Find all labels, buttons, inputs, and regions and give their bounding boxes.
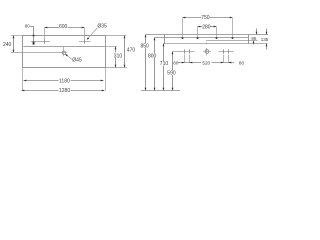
dim 135 bottom arrow xyxy=(266,44,268,50)
svg-text:600: 600 xyxy=(59,24,68,30)
leader O35 xyxy=(87,28,97,39)
extension line top edge left xyxy=(11,35,23,37)
svg-text:80: 80 xyxy=(25,24,30,29)
svg-text:80: 80 xyxy=(239,61,245,66)
leader O45 xyxy=(65,54,71,59)
tap hole 1 tick xyxy=(44,39,46,43)
svg-text:80: 80 xyxy=(173,61,179,66)
rear view left edge xyxy=(164,35,166,44)
drain tick at 135 line xyxy=(206,43,208,45)
svg-text:710: 710 xyxy=(160,61,169,67)
extension line bottom edge right xyxy=(106,67,128,69)
tap hole 2 centerline xyxy=(79,41,91,43)
tap hole 1 centerline xyxy=(31,41,50,43)
drain vertical centerline xyxy=(63,47,65,50)
basin outer rect (top view) xyxy=(23,36,106,68)
rear view slab bottom line xyxy=(155,37,249,39)
bracket holes left centerline xyxy=(180,51,195,53)
dim 95 bottom arrow xyxy=(253,41,255,45)
fixing hole dots xyxy=(182,37,184,39)
dim 600 extension lines xyxy=(44,28,46,41)
rear view right edge xyxy=(248,35,250,44)
bracket holes right centerline xyxy=(219,51,234,53)
dim 1180 line xyxy=(24,80,59,82)
drain symbol rear view xyxy=(205,50,209,54)
shared extension line left xyxy=(22,68,24,91)
svg-text:1280: 1280 xyxy=(59,88,70,94)
floor line xyxy=(141,90,180,92)
svg-text:95: 95 xyxy=(251,36,257,41)
extension line inner top right xyxy=(105,46,117,48)
dim 1280 line xyxy=(22,90,59,92)
rear view 135 line xyxy=(164,43,268,45)
svg-text:1180: 1180 xyxy=(59,78,70,84)
rear view 95 line xyxy=(206,40,258,42)
dim 850 line xyxy=(145,35,147,44)
dim 240 line xyxy=(13,36,15,53)
svg-text:470: 470 xyxy=(127,48,136,54)
dim 80 leader elbow xyxy=(30,27,34,42)
dim 710 line xyxy=(163,44,165,62)
dim 590 ref line xyxy=(173,51,181,53)
tap hole 2 tick xyxy=(84,39,86,43)
dim 95 top arrow xyxy=(256,29,258,35)
dim 470 line xyxy=(124,36,126,68)
bracket hole tick d xyxy=(228,49,230,53)
dim 590 line xyxy=(172,52,174,71)
dim 135 top arrow xyxy=(266,29,268,35)
bracket hole tick a xyxy=(184,49,186,53)
svg-text:240: 240 xyxy=(3,42,12,48)
chain dim line 80-520-80 xyxy=(178,62,202,64)
shared extension line right xyxy=(105,68,107,91)
extension line top edge right xyxy=(106,35,127,37)
dim 800 line xyxy=(154,38,156,54)
bracket hole tick b xyxy=(189,49,191,53)
svg-text:Ø35: Ø35 xyxy=(97,23,107,29)
dim 600 line xyxy=(45,27,59,29)
drain cross xyxy=(61,52,67,54)
svg-text:520: 520 xyxy=(202,61,210,66)
bracket hole tick c xyxy=(223,49,225,53)
dim 310 line xyxy=(115,47,117,53)
svg-text:800: 800 xyxy=(148,53,157,59)
dim 280 extension lines xyxy=(197,27,199,37)
drain circle xyxy=(62,51,65,54)
rear view top edge line xyxy=(146,34,269,36)
dim 240 ref line to drain xyxy=(11,52,62,54)
svg-text:280: 280 xyxy=(202,25,211,31)
basin inner bowl front line xyxy=(23,46,104,48)
svg-text:590: 590 xyxy=(167,71,176,77)
svg-text:310: 310 xyxy=(114,53,123,59)
dim 750 extension lines xyxy=(182,18,184,37)
dim 280 line xyxy=(198,26,203,28)
svg-text:850: 850 xyxy=(141,43,150,49)
svg-text:135: 135 xyxy=(261,37,269,42)
svg-text:Ø45: Ø45 xyxy=(72,57,82,63)
chain dim extension lines xyxy=(184,55,186,64)
dim 750 line xyxy=(183,17,202,19)
svg-text:750: 750 xyxy=(201,15,210,21)
dim 80 tick marks xyxy=(33,35,35,37)
